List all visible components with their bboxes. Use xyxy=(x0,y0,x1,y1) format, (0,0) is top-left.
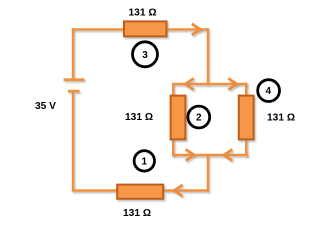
current arrow on bottom wire pointing left toward R1 xyxy=(174,185,182,196)
battery B1 bottom (short) plate xyxy=(68,90,80,93)
wire: parallel section top rail xyxy=(173,83,247,85)
current arrow on top rail pointing left toward R2 xyxy=(185,78,193,89)
svg-text:1: 1 xyxy=(142,156,148,167)
node circle 3 (top resistor marker) xyxy=(133,42,158,67)
wire: left vertical from top-left corner down to battery top plate xyxy=(72,28,74,78)
wire: bottom horizontal from center drop to resistor R1 xyxy=(164,189,210,191)
resistor R4 (right branch, vertical) xyxy=(239,96,254,140)
wire: stub from top rail down into resistor R2 xyxy=(172,83,174,96)
svg-text:131 Ω: 131 Ω xyxy=(123,208,151,219)
wire: center drop from bottom rail to bottom wire xyxy=(207,155,209,191)
battery B1 top (long) plate xyxy=(64,78,85,81)
current arrow on bottom rail pointing left from R4 xyxy=(224,149,232,160)
svg-text:35 V: 35 V xyxy=(35,101,56,112)
current arrow after R3 pointing right (open chevron head) xyxy=(192,24,200,35)
current arrow on bottom rail pointing right from R2 xyxy=(186,149,194,160)
wire: stub from resistor R2 down to bottom rail xyxy=(172,139,174,156)
svg-text:2: 2 xyxy=(196,113,202,124)
wire: left vertical from battery bottom plate down to bottom-left corner xyxy=(72,93,74,191)
resistor R2 (left branch, vertical) xyxy=(171,96,186,140)
wire: bottom horizontal from resistor R1 to bottom-left corner xyxy=(72,189,117,191)
current arrow on top rail pointing right toward R4 xyxy=(228,78,236,89)
node circle 4 (right branch marker) xyxy=(258,80,280,102)
svg-text:4: 4 xyxy=(266,86,272,97)
wire: top horizontal from top-left corner to resistor R3 xyxy=(72,28,124,30)
wire: stub from top rail down into resistor R4 xyxy=(245,83,247,96)
svg-text:131 Ω: 131 Ω xyxy=(125,112,153,123)
wire: parallel section bottom rail xyxy=(172,154,248,156)
wire: top horizontal from resistor R3 to top-right corner xyxy=(166,28,208,30)
node circle 1 (bottom resistor marker) xyxy=(134,151,154,171)
svg-text:3: 3 xyxy=(142,50,148,61)
svg-text:131 Ω: 131 Ω xyxy=(129,8,157,19)
node circle 2 (left branch marker) xyxy=(188,106,210,128)
wire: stub from resistor R4 down to bottom rail xyxy=(245,139,247,156)
svg-text:131 Ω: 131 Ω xyxy=(267,113,295,124)
resistor R3 (top) xyxy=(124,21,167,36)
resistor R1 (bottom) xyxy=(117,185,163,199)
wire: right vertical from top-right corner down to parallel top rail xyxy=(207,28,209,85)
